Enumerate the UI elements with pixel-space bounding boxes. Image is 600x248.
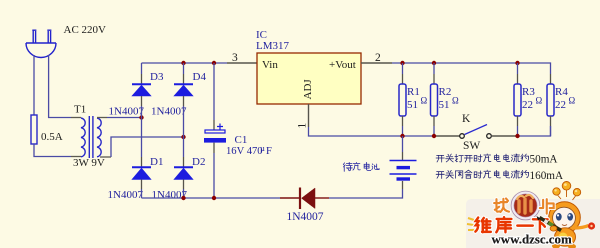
wire battery bottom bbox=[402, 181, 404, 189]
svg-text:51: 51 bbox=[407, 99, 418, 111]
片 (orange, white outline) bbox=[540, 199, 554, 214]
wire secondary bottom step to bridge right branch bbox=[100, 156, 111, 158]
svg-text:AC 220V: AC 220V bbox=[64, 24, 107, 36]
wire D4 to D2 bbox=[183, 96, 185, 106]
note line C: 开关闭合时充电电流约160mA bbox=[436, 170, 563, 182]
note line B: 开关打开时充电电流约50mA bbox=[436, 154, 557, 166]
wire fuse to transformer primary bottom bbox=[34, 144, 71, 157]
mascot feet bbox=[552, 243, 560, 248]
transformer T1 bbox=[81, 116, 101, 158]
svg-text:D4: D4 bbox=[193, 71, 207, 83]
node D4 top junction bbox=[181, 61, 185, 65]
node R3 top bbox=[515, 61, 519, 65]
diode D3 bbox=[132, 84, 151, 96]
svg-text:1N4007: 1N4007 bbox=[151, 106, 187, 118]
pin 3 stub bbox=[227, 62, 257, 64]
svg-text:R2: R2 bbox=[439, 86, 452, 98]
svg-text:D3: D3 bbox=[150, 71, 164, 83]
wire D1 bottom bbox=[141, 180, 143, 190]
wire ADJ to battery junction bbox=[309, 127, 403, 136]
switch SW bbox=[460, 125, 492, 139]
svg-text:ADJ: ADJ bbox=[302, 79, 314, 100]
svg-text:16V 470: 16V 470 bbox=[226, 146, 263, 157]
node secondary-bottom junction bbox=[181, 135, 185, 139]
维库一下 (red, white outline) bbox=[475, 217, 547, 232]
magnifier circle bbox=[513, 193, 539, 219]
svg-text:160mA: 160mA bbox=[530, 170, 564, 182]
svg-text:22: 22 bbox=[522, 99, 533, 111]
mascot antenna balls bbox=[553, 182, 581, 201]
svg-text:Ω: Ω bbox=[421, 96, 428, 106]
wire bottom rail left bbox=[142, 197, 281, 199]
svg-text:1N4007: 1N4007 bbox=[109, 106, 145, 118]
mascot eyes bbox=[556, 213, 562, 221]
wire D3 to secondary junction bbox=[141, 96, 143, 106]
diode D5 1N4007 (return) bbox=[280, 188, 329, 210]
watermark dzsc logo bbox=[466, 182, 600, 248]
svg-text:Ω: Ω bbox=[569, 96, 576, 106]
svg-text:F: F bbox=[266, 146, 272, 157]
svg-text:0.5A: 0.5A bbox=[41, 131, 63, 143]
resistor R1 bbox=[402, 63, 404, 74]
wire bottom-right rail bbox=[403, 135, 437, 137]
svg-text:LM317: LM317 bbox=[256, 40, 290, 52]
svg-text:+Vout: +Vout bbox=[329, 59, 356, 71]
diode D2 bbox=[174, 167, 193, 179]
wire battery top bbox=[402, 136, 404, 152]
node C1 top junction bbox=[212, 61, 216, 65]
resistor R4 bbox=[547, 84, 554, 116]
svg-text:R3: R3 bbox=[522, 86, 535, 98]
找 (orange, white outline) bbox=[494, 198, 509, 212]
mascot right arm with flower bbox=[574, 226, 589, 229]
pin 1 stub (ADJ) bbox=[308, 104, 310, 127]
capacitor C1 bbox=[204, 124, 226, 143]
svg-text:T1: T1 bbox=[74, 104, 86, 116]
diode D1 bbox=[132, 167, 151, 179]
node R3 bottom bbox=[515, 134, 519, 138]
svg-text:R1: R1 bbox=[407, 86, 420, 98]
svg-text:22: 22 bbox=[555, 99, 566, 111]
svg-text:µ: µ bbox=[260, 143, 265, 153]
svg-text:51: 51 bbox=[439, 99, 450, 111]
wire left branch upper bbox=[141, 63, 143, 74]
resistor R3 bbox=[517, 63, 519, 74]
resistor R2 bbox=[433, 63, 435, 74]
IC U1 LM317 bbox=[257, 53, 361, 104]
svg-text:50mA: 50mA bbox=[530, 154, 558, 166]
svg-text:1N4007: 1N4007 bbox=[108, 189, 144, 201]
svg-text:1N4007: 1N4007 bbox=[287, 211, 324, 223]
mascot face bbox=[553, 207, 576, 229]
yellow accent ticks bbox=[467, 218, 474, 230]
svg-text:Vin: Vin bbox=[262, 59, 278, 71]
svg-text:3: 3 bbox=[232, 52, 238, 64]
node R1 top bbox=[400, 61, 404, 65]
AC plug P1 bbox=[26, 30, 56, 57]
wire plug-left to fuse bbox=[33, 55, 35, 115]
fuse F 0.5A bbox=[31, 115, 37, 144]
node secondary-top junction bbox=[139, 115, 143, 119]
svg-text:R4: R4 bbox=[555, 86, 568, 98]
node R2 top bbox=[432, 61, 436, 65]
wire plug-right to transformer primary top bbox=[49, 55, 71, 118]
mascot mouth bbox=[562, 225, 567, 226]
svg-text:1: 1 bbox=[297, 123, 309, 129]
node C1 bottom junction bbox=[212, 196, 216, 200]
svg-text:Ω: Ω bbox=[536, 96, 543, 106]
diode D4 bbox=[174, 84, 193, 96]
wire top rail bridge to LM317 bbox=[142, 62, 228, 64]
svg-text:K: K bbox=[462, 113, 471, 125]
node R2 bottom bbox=[432, 134, 436, 138]
svg-text:SW: SW bbox=[463, 140, 480, 152]
node battery/R1 junction bbox=[400, 134, 404, 138]
svg-text:C1: C1 bbox=[235, 134, 248, 146]
mascot hood bbox=[549, 202, 581, 234]
mascot left arm and pen bbox=[540, 218, 562, 231]
svg-text:D1: D1 bbox=[150, 156, 163, 168]
label 待充电池 (battery label, CJK strokes) bbox=[343, 162, 379, 171]
svg-text:2: 2 bbox=[375, 52, 381, 64]
pin 2 stub bbox=[361, 62, 392, 64]
wire C1 bottom bbox=[213, 143, 215, 153]
wire switch to R3/R4 bbox=[491, 135, 517, 137]
mascot body bbox=[555, 228, 576, 246]
watermark backdrop bbox=[466, 199, 600, 248]
battery BT 待充电池 bbox=[390, 161, 417, 180]
node D2 bottom junction bbox=[181, 196, 185, 200]
svg-text:Ω: Ω bbox=[452, 96, 459, 106]
wire secondary top to bridge bbox=[97, 117, 107, 119]
svg-text:3W 9V: 3W 9V bbox=[73, 157, 105, 169]
svg-text:www.dzsc.com: www.dzsc.com bbox=[492, 233, 572, 247]
wire D2 bottom bbox=[183, 180, 185, 190]
wire C1 branch top bbox=[213, 63, 215, 120]
wire top rail right bbox=[392, 63, 551, 74]
svg-text:D2: D2 bbox=[192, 156, 205, 168]
wire right branch upper bbox=[183, 63, 185, 74]
